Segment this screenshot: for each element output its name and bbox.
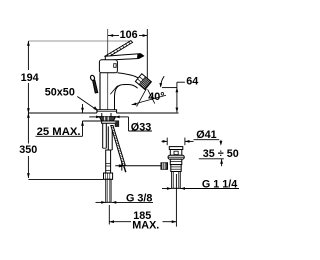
40 deg spray lines: [137, 89, 147, 107]
svg-text:G 3/8: G 3/8: [126, 193, 152, 205]
106 dim line: [108, 35, 119, 37]
base plate: [97, 110, 117, 113]
svg-text:106: 106: [120, 29, 138, 41]
O41: [163, 140, 168, 143]
G 3/8 dim: [96, 201, 106, 203]
spout neck + underside: [115, 84, 138, 97]
svg-text:35 ÷ 50: 35 ÷ 50: [203, 148, 239, 160]
svg-text:64: 64: [186, 76, 198, 88]
main hose: [106, 150, 111, 173]
rod bracket: [102, 121, 119, 126]
350: [27, 113, 30, 118]
106: [109, 34, 114, 37]
top extension line (grey) at lever-tip level: [28, 40, 130, 42]
aerator curved leader: [161, 76, 165, 86]
deck surface left: [28, 112, 97, 114]
25 MAX: [81, 108, 84, 113]
spout upper: [117, 73, 139, 79]
svg-text:Ø33: Ø33: [131, 121, 151, 133]
G 1 1/4 dim: [162, 188, 172, 190]
64: [176, 88, 179, 93]
shank below deck: [101, 113, 103, 117]
G3/8 nipple: [106, 179, 111, 202]
G 1 1/4: [167, 187, 172, 190]
350 dim line: [27, 113, 29, 144]
svg-text:194: 194: [21, 72, 39, 84]
handle blade: [105, 54, 143, 61]
svg-text:50x50: 50x50: [45, 86, 75, 98]
O33: [96, 116, 101, 119]
25 MAX leader vertical: [82, 104, 84, 113]
body column: [99, 73, 101, 110]
svg-text:350: 350: [19, 144, 37, 156]
50x50 leader: [77, 97, 97, 111]
aerator curved leader arrow (pointing down): [159, 83, 162, 88]
raised lever (hatched): [105, 41, 133, 58]
svg-text:40°: 40°: [148, 91, 164, 103]
64 dim: [177, 81, 185, 83]
clevis + horizontal rod: [115, 165, 161, 167]
40deg arc arrow: [132, 103, 137, 106]
deck bottom short line: [83, 120, 102, 122]
50x50 leader arrow (pointing down-right): [93, 106, 98, 111]
185 MAX dim: [108, 205, 110, 225]
O33 leader: [89, 116, 96, 118]
185 MAX: [109, 220, 114, 223]
G 3/8: [101, 201, 106, 204]
hose tubes: [102, 123, 104, 148]
35/50 ticks: [220, 140, 222, 142]
hose nut: [104, 173, 113, 179]
drain pull knob: [90, 75, 95, 81]
106 dim: extension lines: [107, 29, 109, 110]
mounting nut: [99, 117, 115, 121]
35/50: [220, 141, 223, 146]
svg-text:MAX.: MAX.: [132, 219, 159, 231]
deck surface right: [117, 112, 179, 114]
svg-text:G 1 1/4: G 1 1/4: [202, 178, 237, 190]
O41 dim: [162, 140, 168, 142]
cartridge block: [99, 60, 117, 73]
svg-text:Ø41: Ø41: [196, 129, 216, 141]
svg-text:25 MAX.: 25 MAX.: [37, 126, 81, 138]
hose-end extension line: [28, 179, 103, 181]
194 dim line: [27, 41, 29, 70]
aerator: [135, 74, 151, 90]
pull rod (hatched diagonal): [111, 126, 125, 166]
194: [27, 41, 30, 46]
